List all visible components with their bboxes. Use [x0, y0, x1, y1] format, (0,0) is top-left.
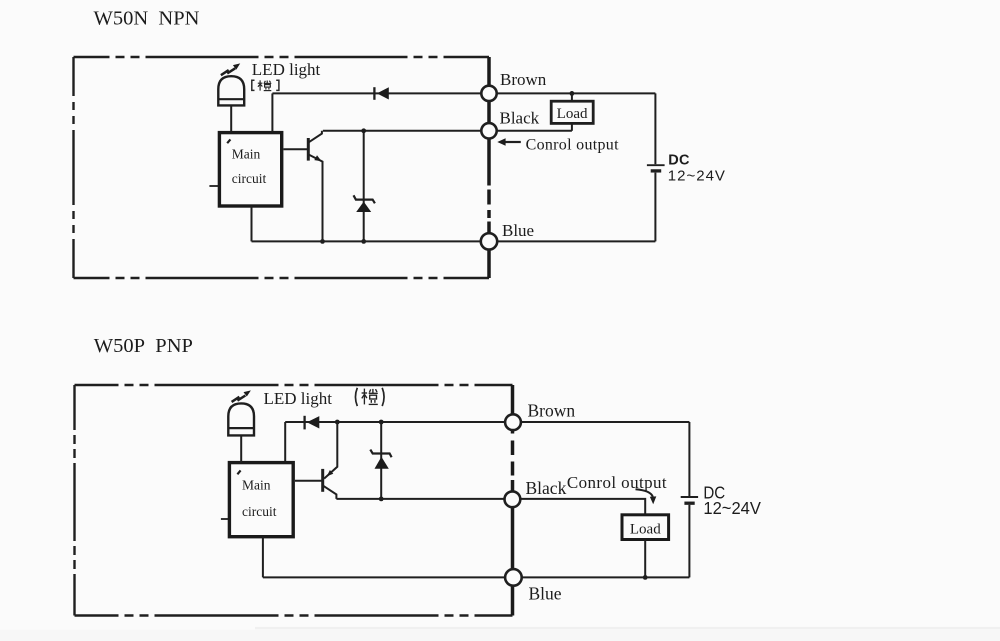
svg-text:W50N NPN: W50N NPN	[94, 8, 200, 30]
svg-text:Black: Black	[526, 478, 567, 498]
svg-text:W50P PNP: W50P PNP	[94, 335, 193, 357]
svg-text:LED light: LED light	[264, 389, 333, 408]
svg-text:12~24V: 12~24V	[703, 497, 761, 518]
svg-text:circuit: circuit	[232, 171, 267, 186]
svg-text:12~24V: 12~24V	[668, 168, 726, 185]
svg-text:Brown: Brown	[500, 70, 547, 89]
svg-text:DC: DC	[668, 152, 690, 168]
svg-text:Conrol output: Conrol output	[526, 137, 619, 154]
svg-text:Conrol output: Conrol output	[567, 473, 667, 492]
svg-text:Load: Load	[630, 522, 661, 538]
svg-text:Black: Black	[500, 109, 540, 128]
svg-text:Load: Load	[557, 106, 588, 122]
svg-text:circuit: circuit	[242, 504, 277, 519]
svg-text:Brown: Brown	[528, 400, 576, 420]
svg-text:Main: Main	[242, 477, 271, 492]
svg-text:Main: Main	[232, 146, 261, 161]
svg-text:LED light: LED light	[252, 60, 321, 79]
svg-text:Blue: Blue	[502, 221, 534, 240]
svg-text:Blue: Blue	[529, 583, 562, 603]
